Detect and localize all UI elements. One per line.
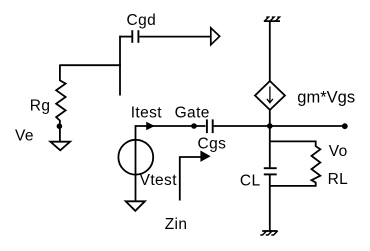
resistor RL loop [270,141,321,186]
wire node vertical [269,110,271,169]
svg-text:CL: CL [240,172,261,189]
svg-text:Itest: Itest [131,105,163,122]
wire [139,36,210,38]
wire [136,125,206,127]
ground Ve [50,142,70,151]
wire [269,21,271,82]
capacitor Cgs [207,119,213,133]
wire [120,36,132,38]
arrowhead Itest [147,123,154,130]
svg-text:Rg: Rg [30,98,51,115]
wire [214,125,345,127]
arrowhead Zin [201,151,210,161]
junction dot [57,123,63,129]
wire [60,64,121,66]
wire vtest vertical [135,125,137,201]
capacitor Cgd [132,30,138,43]
voltage source Vtest [118,140,153,175]
svg-text:Gate: Gate [175,105,210,122]
junction dot Gate [191,123,197,129]
wire [119,36,121,96]
svg-text:Zin: Zin [165,216,188,233]
supply ground top [264,17,280,21]
svg-text:Cgs: Cgs [198,136,227,153]
svg-text:Vo: Vo [329,143,348,160]
svg-text:Ve: Ve [15,128,34,145]
svg-text:RL: RL [328,171,349,188]
capacitor CL [264,168,277,174]
Zin pointer [180,157,202,201]
resistor Rg [56,65,65,142]
ground bottom [260,231,277,235]
arrow inside source [267,87,273,103]
wire [269,174,271,231]
svg-text:gm*Vgs: gm*Vgs [297,88,355,106]
ground Vtest [126,201,145,211]
junction dot node [267,123,273,129]
svg-text:Vtest: Vtest [140,172,178,189]
open arrow pointer [211,28,220,45]
end dot [342,123,348,129]
svg-text:Cgd: Cgd [127,12,157,29]
dependent source gm*Vgs [255,81,285,110]
